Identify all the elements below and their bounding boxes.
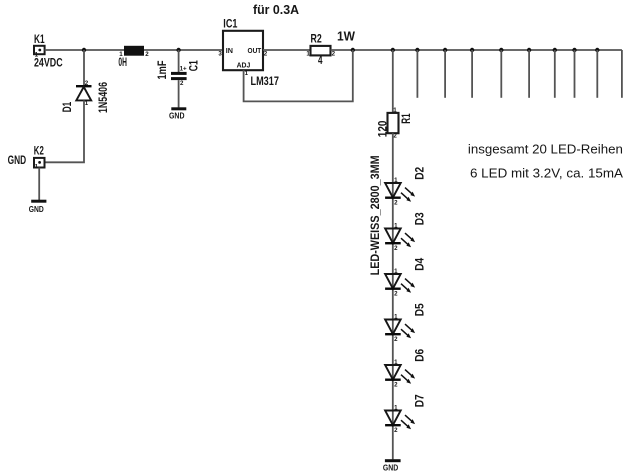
svg-text:1: 1 — [306, 51, 310, 58]
junction LED row stub 8 — [595, 48, 599, 52]
svg-text:LED-WEISS_2800_3MM: LED-WEISS_2800_3MM — [370, 155, 382, 275]
resistor R1 — [388, 107, 399, 139]
junction LED row stub 6 — [553, 48, 557, 52]
LED D2 — [385, 177, 415, 207]
ground symbol at K2 — [29, 200, 47, 214]
svg-text:GND: GND — [29, 204, 44, 214]
LED D4 — [385, 268, 415, 298]
svg-text:2: 2 — [180, 80, 184, 87]
svg-text:2: 2 — [145, 51, 149, 58]
svg-text:1: 1 — [35, 164, 39, 171]
wire LED row stub 3 — [471, 50, 473, 98]
LED D7 — [385, 404, 415, 434]
svg-text:1mF: 1mF — [157, 61, 169, 80]
LED D6 — [385, 359, 415, 389]
LED D3 — [385, 222, 415, 252]
svg-text:D4: D4 — [415, 257, 427, 271]
svg-text:2: 2 — [393, 133, 397, 140]
svg-text:GND: GND — [383, 462, 398, 472]
wire 24V: K1 to L1 — [45, 49, 124, 51]
svg-text:K1: K1 — [34, 34, 45, 46]
svg-text:120: 120 — [378, 121, 390, 138]
svg-text:C1: C1 — [189, 60, 201, 71]
svg-text:R1: R1 — [401, 113, 413, 124]
svg-text:1W: 1W — [337, 29, 356, 44]
diode D1 — [76, 80, 92, 107]
wire L1 to IC1 IN — [144, 49, 223, 51]
wire bus to R1 — [392, 50, 394, 113]
junction LED row stub 7 — [572, 48, 576, 52]
ground symbol at C1 — [169, 107, 186, 120]
junction at C1 branch — [176, 48, 180, 52]
svg-text:3: 3 — [218, 50, 222, 57]
svg-text:4: 4 — [318, 55, 323, 67]
junction LED row stub 2 — [443, 48, 447, 52]
voltage regulator IC1 — [218, 31, 267, 77]
connector K2 — [34, 158, 45, 171]
junction LED row stub 3 — [470, 48, 474, 52]
wire LED row stub 4 — [500, 50, 502, 98]
junction 24V at D1 branch — [82, 48, 86, 52]
junction LED row stub 4 — [499, 48, 503, 52]
svg-text:1: 1 — [245, 70, 249, 77]
svg-text:0H: 0H — [118, 57, 127, 69]
svg-text:D1: D1 — [62, 101, 74, 112]
svg-text:GND: GND — [169, 111, 185, 121]
wire K2 to ground — [38, 168, 40, 201]
wire LED row stub 6 — [554, 50, 556, 98]
svg-text:6 LED mit 3.2V, ca. 15mA: 6 LED mit 3.2V, ca. 15mA — [470, 166, 623, 181]
svg-text:24VDC: 24VDC — [34, 57, 63, 69]
wire ADJ feedback — [244, 50, 353, 101]
inductor L1 — [119, 46, 149, 58]
junction LED row stub 5 — [527, 48, 531, 52]
svg-text:GND: GND — [8, 155, 27, 167]
svg-text:1N5406: 1N5406 — [98, 82, 110, 113]
wire LED chain — [392, 133, 394, 459]
junction LED row stub 1 — [415, 48, 419, 52]
svg-text:2: 2 — [332, 51, 336, 58]
wire IC1 OUT to R2 — [263, 49, 311, 51]
svg-text:1+: 1+ — [180, 66, 187, 73]
wire D1 to K2 — [45, 100, 84, 162]
wire LED row stub 7 — [574, 50, 576, 98]
svg-text:D2: D2 — [415, 167, 427, 180]
ground symbol at LED chain — [383, 459, 401, 472]
svg-text:2: 2 — [85, 80, 89, 87]
wire D1 branch — [83, 50, 85, 86]
svg-text:D7: D7 — [415, 394, 427, 407]
svg-text:OUT: OUT — [248, 46, 262, 55]
wire LED row stub 2 — [444, 50, 446, 98]
svg-text:K2: K2 — [34, 146, 44, 158]
wire LED row stub 8 — [596, 50, 598, 98]
junction bus at R1 branch — [391, 48, 395, 52]
svg-text:2: 2 — [264, 50, 268, 57]
svg-text:D5: D5 — [415, 303, 427, 317]
svg-text:für 0.3A: für 0.3A — [253, 2, 300, 17]
svg-text:IC1: IC1 — [223, 19, 238, 31]
wire LED row stub 5 — [528, 50, 530, 98]
svg-text:insgesamt 20 LED-Reihen: insgesamt 20 LED-Reihen — [468, 142, 623, 157]
capacitor C1 — [171, 66, 187, 87]
svg-text:1: 1 — [393, 107, 397, 114]
svg-text:R2: R2 — [311, 34, 322, 46]
junction bus at ADJ feedback — [351, 48, 355, 52]
svg-text:D6: D6 — [415, 349, 427, 362]
svg-text:LM317: LM317 — [251, 76, 279, 88]
wire bus after R2 — [331, 49, 622, 51]
svg-text:IN: IN — [226, 46, 233, 55]
connector K1 — [34, 46, 45, 59]
svg-text:1: 1 — [85, 100, 89, 107]
wire C1 branch — [178, 50, 180, 72]
wire bus end stub — [621, 50, 623, 98]
svg-text:D3: D3 — [415, 212, 427, 225]
resistor R2 — [306, 46, 335, 58]
wire C1 to ground — [178, 80, 180, 107]
wire LED row stub 1 — [416, 50, 418, 98]
LED D5 — [385, 313, 415, 343]
svg-text:ADJ: ADJ — [237, 61, 251, 70]
